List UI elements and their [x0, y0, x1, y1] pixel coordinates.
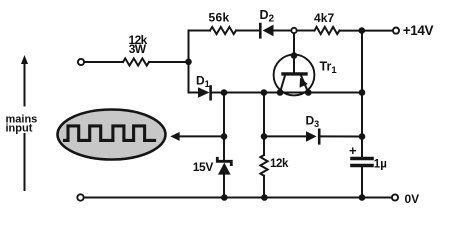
- wire arrow tee to oval: [179, 135, 224, 137]
- wire D2 to base node: [274, 30, 292, 32]
- svg-text:12k: 12k: [270, 158, 289, 170]
- diode D3 (pointing right): [306, 131, 317, 142]
- junction 4k7 / +14V rail: [359, 27, 366, 34]
- wire vertical up to top rail: [189, 31, 211, 93]
- wire 12k vertical top: [263, 93, 265, 156]
- capacitor C 1u plates: [352, 157, 372, 161]
- junction collector: [277, 89, 284, 96]
- resistor 4k7: [315, 27, 340, 34]
- node base (open circle): [291, 28, 296, 33]
- resistor R 12k 3W: [123, 58, 149, 65]
- node junction 12k/56k/D1: [185, 59, 192, 66]
- svg-text:15V: 15V: [193, 160, 214, 174]
- transistor emitter lead: [301, 76, 308, 93]
- transistor base bar: [283, 72, 306, 75]
- svg-text:0V: 0V: [405, 192, 420, 206]
- wire from top-left terminal to resistor 12k 3W: [84, 61, 123, 63]
- resistor 56k: [210, 27, 236, 34]
- terminal 0V: [392, 194, 398, 200]
- diode D1 (pointing right): [198, 87, 210, 98]
- junction base at circle top: [291, 52, 298, 59]
- svg-text:D2: D2: [260, 8, 275, 25]
- svg-text:4k7: 4k7: [314, 11, 335, 25]
- wire 4k7 to +14V terminal: [340, 30, 393, 32]
- svg-text:D3: D3: [306, 114, 320, 130]
- transistor Tr1 circle: [274, 55, 315, 96]
- svg-text:1µ: 1µ: [374, 158, 387, 170]
- wire D1 to emitter rail: [211, 92, 362, 94]
- svg-text:3W: 3W: [129, 42, 147, 56]
- wire +14V vertical down to capacitor: [361, 31, 363, 157]
- junction D3 tee: [261, 133, 268, 140]
- transistor emitter arrow: [300, 78, 308, 88]
- terminal top-left: [78, 59, 84, 65]
- wire cap bottom to 0V rail: [361, 167, 363, 197]
- wire corner D1 row: [189, 92, 199, 94]
- wire D3 row: [264, 135, 306, 137]
- junction cap bottom: [359, 194, 366, 201]
- zener diode 15V: [217, 158, 231, 164]
- square wave: [65, 126, 155, 140]
- resistor 12k vertical: [260, 155, 267, 176]
- mains input arrow: [21, 55, 28, 64]
- arrowhead pointing to waveform oval: [170, 132, 179, 141]
- wire 12k bottom: [263, 176, 265, 198]
- wire 56k to D2: [236, 30, 261, 32]
- bottom rail 0V: [84, 197, 392, 199]
- junction zener bottom: [221, 194, 228, 201]
- junction D1/zener: [221, 89, 228, 96]
- svg-text:56k: 56k: [209, 11, 230, 25]
- svg-text:+14V: +14V: [403, 23, 434, 38]
- wire zener vertical: [223, 93, 225, 162]
- junction emitter/+14V vertical: [359, 89, 366, 96]
- diode D2 (cathode left): [259, 24, 262, 37]
- svg-text:Tr1: Tr1: [320, 59, 338, 76]
- svg-text:D1: D1: [196, 73, 210, 89]
- junction 12k bottom: [261, 194, 268, 201]
- wire base node down to transistor: [293, 33, 295, 73]
- junction cap top / D3: [359, 133, 366, 140]
- svg-text:+: +: [349, 143, 357, 158]
- waveform oval: [58, 110, 166, 160]
- svg-text:input: input: [6, 122, 33, 134]
- junction arrow tee on zener line: [221, 133, 228, 140]
- terminal bottom-left: [77, 194, 83, 200]
- transistor collector lead: [280, 76, 285, 93]
- junction emitter: [305, 89, 312, 96]
- junction 12k top: [261, 89, 268, 96]
- terminal +14V: [393, 28, 399, 34]
- wire base node to 4k7: [297, 30, 315, 32]
- wire resistor to node: [149, 61, 189, 63]
